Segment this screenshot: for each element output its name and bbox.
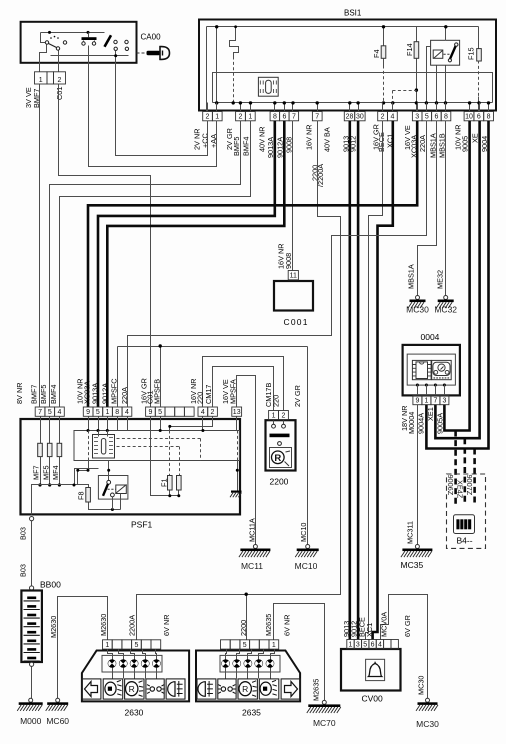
svg-text:11: 11 [290, 273, 297, 280]
svg-text:8: 8 [487, 114, 491, 121]
ground MC60 [56, 698, 60, 702]
wire 9008 [292, 121, 294, 271]
svg-text:9005: 9005 [460, 136, 469, 152]
2635 icon row [197, 679, 216, 699]
svg-text:MF5: MF5 [41, 465, 50, 480]
0004 pin boxes [413, 395, 422, 404]
fuse F14 [416, 27, 418, 42]
rear light icon [168, 682, 175, 697]
dashed wire 9006Z [454, 431, 457, 506]
svg-text:1: 1 [106, 409, 110, 416]
svg-text:BMF4: BMF4 [49, 385, 58, 404]
wire 9013 (thick) [348, 121, 351, 640]
svg-text:9005A: 9005A [436, 413, 445, 434]
svg-text:2: 2 [381, 114, 385, 121]
svg-text:2: 2 [211, 409, 215, 416]
svg-text:6V GR: 6V GR [403, 615, 412, 637]
CA00 internal rail [41, 32, 105, 34]
PSF1 switch sub-box [74, 431, 240, 461]
svg-text:9007Z: 9007Z [465, 475, 474, 496]
svg-text:6: 6 [282, 114, 286, 121]
svg-text:M2635: M2635 [264, 614, 273, 636]
svg-text:CV00: CV00 [362, 694, 384, 704]
fuse F15 [478, 27, 480, 49]
svg-text:7: 7 [433, 398, 437, 405]
dipped beam icon [260, 682, 271, 695]
svg-text:9: 9 [415, 398, 419, 405]
svg-text:0004: 0004 [421, 332, 440, 342]
svg-text:R: R [242, 684, 248, 694]
svg-text:7: 7 [315, 114, 319, 121]
svg-text:2: 2 [281, 413, 285, 420]
svg-text:8: 8 [273, 114, 277, 121]
wire 9005 (thick) [444, 121, 469, 431]
svg-text:MC30: MC30 [417, 676, 426, 695]
PSF1 fuses MF7 MF5 MF4 [40, 417, 42, 444]
BSI1 unit [199, 20, 496, 111]
svg-text:5: 5 [134, 642, 138, 649]
svg-text:BMF5: BMF5 [232, 137, 241, 156]
svg-text:6: 6 [371, 642, 375, 649]
key symbol [137, 52, 147, 54]
PSF1 relay [98, 476, 128, 500]
svg-text:5: 5 [363, 642, 367, 649]
wire MBS1B / ME32 to MC32 [445, 121, 447, 296]
svg-text:CM17: CM17 [204, 385, 213, 404]
svg-text:6V NR: 6V NR [162, 615, 171, 637]
PSF1 fuses F1 pair [169, 476, 171, 496]
CA00 contact set 2 [82, 37, 97, 40]
svg-text:6: 6 [434, 114, 438, 121]
svg-text:13: 13 [233, 409, 241, 416]
wire B03 battery [31, 521, 33, 586]
PSF1 C01 internal [151, 417, 179, 496]
svg-text:8V NR: 8V NR [15, 383, 24, 405]
wire CM17 / CM17B [213, 367, 274, 411]
svg-text:3: 3 [442, 398, 446, 405]
BSI1 inner band [213, 73, 493, 103]
ground M000 [29, 698, 33, 702]
cluster gauge symbol [432, 360, 452, 379]
BSI1 pin stubs and band dots [207, 103, 209, 112]
svg-text:5: 5 [48, 409, 52, 416]
wire +CC [116, 63, 208, 156]
ignition switch CA00 [21, 22, 137, 63]
wire BMF7 [39, 85, 41, 407]
svg-text:3: 3 [356, 642, 360, 649]
svg-text:1: 1 [272, 413, 276, 420]
svg-text:2630: 2630 [125, 708, 144, 718]
bell icon [366, 659, 385, 680]
svg-text:220: 220 [271, 395, 280, 407]
wire 9013A (thick) [98, 121, 275, 407]
svg-text:XC1: XC1 [365, 623, 374, 637]
ground MC30 bottom [426, 698, 430, 702]
wire XC1 (thick) [373, 121, 393, 640]
2200 internal contacts [273, 421, 275, 425]
svg-text:M000: M000 [20, 716, 42, 726]
position light icon [150, 687, 154, 691]
BSI1 top rail [207, 26, 479, 28]
svg-text:2200: 2200 [270, 477, 289, 487]
fuse box PSF1 [21, 419, 241, 514]
main beam icon R [239, 682, 251, 696]
svg-text:R: R [274, 453, 281, 464]
turn arrow right icon [285, 682, 298, 697]
svg-text:40V BA: 40V BA [323, 127, 332, 152]
svg-text:4: 4 [125, 409, 129, 416]
connector C01 pins 1,2 [35, 72, 48, 84]
wire 9012 (thick) [357, 121, 360, 640]
wire M2635 to MC70 [274, 604, 325, 701]
ground MC30 [416, 296, 420, 300]
svg-text:16V NR: 16V NR [305, 124, 314, 150]
svg-text:2: 2 [206, 114, 210, 121]
svg-text:BMF4: BMF4 [242, 137, 251, 156]
svg-text:5: 5 [243, 642, 247, 649]
svg-text:MC32: MC32 [434, 305, 457, 315]
svg-text:5: 5 [425, 114, 429, 121]
svg-text:9012A: 9012A [100, 383, 109, 404]
svg-text:2200A: 2200A [128, 615, 137, 636]
svg-text:MC30: MC30 [406, 305, 429, 315]
svg-text:1: 1 [424, 398, 428, 405]
svg-text:MC11A: MC11A [247, 518, 256, 542]
wire 220A [128, 121, 427, 407]
svg-text:M0004: M0004 [407, 412, 416, 434]
dashed wire 9007Z [473, 449, 476, 506]
PSF1 sub-box pin stubs [88, 417, 90, 431]
BSI1 shunt symbol [258, 77, 278, 96]
svg-text:6V NR: 6V NR [283, 615, 292, 637]
wire 2200 /2200A [137, 121, 341, 640]
svg-text:CA00: CA00 [141, 33, 162, 42]
svg-text:MC10: MC10 [295, 561, 318, 571]
svg-text:C01: C01 [55, 87, 64, 100]
svg-text:MF4: MF4 [51, 465, 60, 480]
svg-text:F1: F1 [160, 478, 169, 487]
wire BECE [366, 121, 383, 640]
svg-text:MCV0A: MCV0A [380, 612, 389, 637]
svg-text:7: 7 [292, 114, 296, 121]
PSF1 CM17 internal link [170, 417, 213, 431]
wire BMF4 [60, 121, 251, 407]
svg-text:1: 1 [272, 642, 276, 649]
svg-text:220A: 220A [120, 387, 129, 404]
PSF1 pin boxes [35, 407, 45, 416]
svg-text:9008: 9008 [284, 253, 293, 269]
svg-text:9004A: 9004A [417, 413, 426, 434]
svg-text:MPSFA: MPSFA [229, 379, 238, 404]
svg-text:4: 4 [378, 642, 382, 649]
svg-text:7: 7 [38, 409, 42, 416]
svg-text:1: 1 [248, 114, 252, 121]
svg-text:MC60: MC60 [46, 716, 69, 726]
wire 9012A (thick) [107, 121, 284, 407]
position icon [221, 687, 225, 691]
svg-text:BMF5: BMF5 [39, 385, 48, 404]
svg-text:2635: 2635 [242, 708, 261, 718]
svg-text:B03: B03 [18, 564, 27, 577]
svg-text:5: 5 [158, 409, 162, 416]
svg-text:8: 8 [115, 409, 119, 416]
turn arrow left icon [85, 682, 98, 697]
dashed wire XE4Z [463, 438, 466, 505]
wire XE / XE1 (thick) [435, 121, 479, 438]
svg-text:2: 2 [58, 77, 62, 84]
svg-text:1: 1 [39, 77, 43, 84]
wire XC03A (thick) [88, 121, 417, 407]
svg-text:MC30: MC30 [416, 719, 439, 729]
connector C001 [274, 281, 313, 311]
wire C01 [59, 85, 151, 407]
dipped beam icon [105, 682, 116, 695]
svg-text:BSI1: BSI1 [344, 9, 362, 18]
svg-text:4: 4 [58, 409, 62, 416]
BSI1 pin boxes [203, 112, 213, 121]
svg-text:MBS1A: MBS1A [428, 133, 437, 158]
svg-text:10: 10 [465, 114, 473, 121]
svg-text:MC10: MC10 [299, 523, 308, 542]
svg-text:F15: F15 [467, 47, 476, 60]
wire MBS1A to MC30 [418, 121, 437, 296]
cluster IC symbol [412, 360, 431, 379]
svg-text:1: 1 [215, 114, 219, 121]
svg-text:R: R [129, 684, 135, 694]
CA00 contact set 3 [105, 35, 112, 47]
svg-text:MC35: MC35 [401, 560, 424, 570]
svg-text:F14: F14 [405, 43, 414, 56]
svg-text:MPSFC: MPSFC [110, 378, 119, 404]
headlamp unit 2635 [196, 651, 300, 702]
ground MC32 [444, 296, 448, 300]
fuse F4 [383, 27, 385, 46]
svg-text:220A: 220A [418, 135, 427, 152]
svg-text:MPSFB: MPSFB [153, 379, 162, 404]
fuse F8 [86, 488, 91, 503]
main beam icon R [126, 682, 138, 696]
svg-text:9006Z: 9006Z [446, 475, 455, 496]
rotary light switch symbol [93, 435, 115, 459]
wire MPSFC / MPSFB net [117, 347, 119, 407]
svg-text:2200: 2200 [239, 620, 248, 636]
wire 9004 / 9004A (thick) [426, 121, 488, 449]
2200 fog lamp icon [270, 448, 292, 468]
svg-text:30: 30 [356, 114, 364, 121]
svg-text:9: 9 [148, 409, 152, 416]
svg-text:BECE: BECE [377, 132, 386, 152]
wire BMF5 [50, 121, 241, 407]
svg-text:BMF7: BMF7 [29, 385, 38, 404]
dashed link to XC1 pin [393, 90, 417, 92]
PSF1 supply bus [32, 485, 89, 515]
svg-text:M2635: M2635 [311, 679, 320, 701]
CA00 lower rail [51, 55, 129, 57]
BSI1 step connector symbol [230, 27, 239, 57]
svg-text:28: 28 [346, 114, 354, 121]
svg-text:MF7: MF7 [32, 465, 41, 480]
svg-text:C001: C001 [284, 317, 309, 327]
svg-text:XE4Z: XE4Z [456, 480, 465, 499]
svg-text:9013A: 9013A [91, 383, 100, 404]
2630 lamp rack [102, 655, 162, 672]
svg-text:PSF1: PSF1 [131, 520, 153, 530]
svg-text:2V GR: 2V GR [293, 385, 302, 407]
ground MC10 [306, 545, 310, 549]
svg-text:4: 4 [201, 409, 205, 416]
wire M2630 to MC60 [58, 597, 108, 701]
ground MC11 [253, 545, 257, 549]
CA00 contact set 1 [41, 33, 46, 43]
svg-text:BB00: BB00 [40, 580, 61, 590]
svg-text:M2630: M2630 [49, 616, 58, 638]
rear light icon [198, 682, 205, 697]
svg-text:B4--: B4-- [457, 536, 473, 546]
2630 icon row [82, 679, 101, 699]
PSF1 internal dashed links [117, 438, 201, 440]
wire 2200 branch to 2635 [246, 595, 248, 640]
svg-text:M2630: M2630 [99, 614, 108, 636]
svg-text:MBS1A: MBS1A [407, 264, 416, 289]
svg-text:4: 4 [390, 114, 394, 121]
wire MPSFA to MC11 [237, 376, 256, 545]
ground MC70 [322, 700, 326, 704]
svg-text:1: 1 [105, 642, 109, 649]
PSF1 internal ground [237, 461, 239, 491]
svg-text:MC70: MC70 [313, 718, 336, 728]
wire MCV0A / 6V GR to MC30 [381, 595, 428, 699]
svg-text:F8: F8 [76, 491, 85, 500]
relay in BSI1 [431, 40, 460, 65]
wire +AA [89, 63, 217, 167]
svg-text:MC11: MC11 [241, 561, 263, 571]
2635 lamp rack [220, 655, 280, 672]
svg-text:B03: B03 [18, 527, 27, 540]
wire 220 [203, 357, 284, 411]
headlamp unit 2630 [82, 651, 189, 702]
svg-text:6: 6 [477, 114, 481, 121]
diagnostic connector B4 [447, 474, 486, 548]
battery BB00 [21, 591, 42, 663]
svg-text:9: 9 [86, 409, 90, 416]
wire M0004 to MC35 [417, 405, 419, 545]
switch 2200 [266, 420, 296, 470]
svg-text:F4: F4 [372, 49, 381, 58]
ground MC35 [415, 545, 419, 549]
svg-text:XE1: XE1 [426, 407, 435, 421]
svg-text:5: 5 [96, 409, 100, 416]
odometer icon [454, 515, 475, 534]
svg-text:2: 2 [239, 114, 243, 121]
svg-text:1: 1 [349, 642, 353, 649]
svg-text:8: 8 [444, 114, 448, 121]
svg-text:3: 3 [415, 114, 419, 121]
cluster pin dots [416, 384, 419, 387]
svg-text:MC311: MC311 [406, 521, 415, 544]
svg-text:ME32: ME32 [435, 270, 444, 289]
horn CV00 [341, 649, 401, 691]
instrument cluster 0004 [403, 345, 460, 396]
